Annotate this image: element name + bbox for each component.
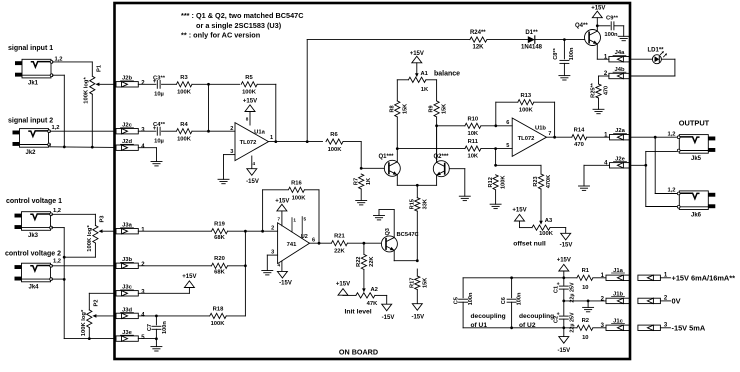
junction Q3 base node bbox=[363, 242, 366, 245]
junction rail2 C6 bbox=[510, 326, 513, 329]
diode D1 1N4148 bbox=[521, 30, 543, 51]
label control voltage 2 bbox=[5, 251, 61, 258]
svg-text:+15V: +15V bbox=[336, 282, 350, 288]
svg-text:10µ: 10µ bbox=[154, 92, 164, 98]
wire rail to R15 bbox=[416, 185, 418, 197]
svg-text:1K: 1K bbox=[366, 178, 372, 185]
svg-text:offset null: offset null bbox=[513, 240, 546, 247]
label decoupling of U1 bbox=[471, 313, 506, 329]
resistor R24 bbox=[470, 30, 487, 51]
wire U1b output bbox=[547, 136, 572, 138]
wire A2 left +15V bbox=[343, 294, 356, 296]
wire R24 to D1 bbox=[487, 39, 528, 41]
resistor R5 feedback bbox=[209, 75, 276, 142]
svg-text:R21: R21 bbox=[334, 234, 345, 240]
power -15V A3 bbox=[560, 233, 573, 248]
junction Q3 emitter node bbox=[416, 259, 419, 262]
connector J2d bbox=[116, 139, 145, 150]
resistor R17 bbox=[409, 269, 428, 304]
connector J3a bbox=[116, 223, 145, 234]
wire Jk2 sleeve rail to J2d bbox=[50, 145, 115, 148]
jack Jk2 bbox=[13, 125, 60, 156]
svg-text:R24**: R24** bbox=[470, 30, 486, 36]
svg-text:R6: R6 bbox=[330, 132, 338, 138]
wire Jk2 tip to J2c bbox=[50, 130, 115, 132]
potentiometer A2 Init level bbox=[345, 287, 379, 316]
resistor R22 bbox=[356, 243, 375, 288]
junction rail C6 bbox=[510, 276, 513, 279]
ground 0V bbox=[583, 301, 594, 312]
svg-text:10µ: 10µ bbox=[154, 138, 164, 144]
wire J2e outside bbox=[630, 164, 645, 166]
svg-text:C4**: C4** bbox=[153, 122, 166, 128]
svg-text:22K: 22K bbox=[369, 257, 375, 267]
power +15V Q4 bbox=[591, 5, 605, 31]
annotation text bbox=[181, 11, 304, 39]
svg-text:100K: 100K bbox=[328, 147, 343, 153]
op-amp U1a bbox=[230, 123, 273, 161]
svg-text:R14: R14 bbox=[574, 127, 585, 133]
junction Q1 base node bbox=[360, 167, 363, 170]
ground R25 bbox=[593, 109, 604, 113]
svg-text:1,2: 1,2 bbox=[667, 131, 675, 137]
label control voltage 1 bbox=[6, 198, 62, 205]
junction R4 node bbox=[207, 130, 210, 133]
wire 0V bbox=[564, 300, 606, 302]
svg-text:1,2: 1,2 bbox=[667, 188, 675, 194]
svg-text:*** : Q1 & Q2, two matched BC5: *** : Q1 & Q2, two matched BC547C bbox=[181, 11, 304, 20]
junction J3e ground bbox=[138, 337, 158, 340]
potentiometer A1 balance bbox=[408, 71, 460, 94]
ground U2 pin3 bbox=[262, 271, 273, 275]
svg-text:R13: R13 bbox=[520, 93, 531, 99]
svg-text:R20: R20 bbox=[214, 256, 225, 262]
power +15V J3c bbox=[182, 274, 196, 288]
junction P2 bottom bbox=[88, 337, 91, 340]
wire R4 to U1a pin2 bbox=[192, 130, 235, 132]
wire Jk4 tip to J3b bbox=[52, 265, 115, 267]
junction rail2 C2 bbox=[562, 326, 565, 329]
wire A3 right -15V bbox=[550, 228, 566, 234]
power +15V balance bbox=[410, 51, 424, 74]
svg-text:Jk3: Jk3 bbox=[28, 233, 39, 239]
resistor R15 bbox=[409, 198, 428, 261]
svg-text:68K: 68K bbox=[214, 235, 225, 241]
wire J2c to C4 bbox=[138, 130, 156, 132]
wire J2d to ground bbox=[138, 148, 156, 162]
resistor R4 bbox=[176, 122, 191, 142]
connector power 0V bbox=[638, 296, 681, 306]
svg-text:R25**: R25** bbox=[591, 82, 597, 97]
ground C8 bbox=[559, 76, 570, 80]
ground C9 bbox=[618, 36, 629, 40]
svg-text:+15V: +15V bbox=[512, 207, 526, 213]
jack Jk4 bbox=[15, 259, 62, 291]
junction P1 bottom rail bbox=[91, 146, 94, 149]
wire Q2 base to ground bbox=[450, 169, 465, 197]
svg-text:15K: 15K bbox=[442, 104, 448, 114]
power -15V U1a bbox=[246, 156, 259, 185]
svg-text:100K: 100K bbox=[211, 321, 226, 327]
svg-text:R7: R7 bbox=[354, 178, 360, 185]
svg-text:100K log*: 100K log* bbox=[81, 309, 87, 336]
svg-text:U1b: U1b bbox=[535, 125, 546, 131]
svg-text:TL072: TL072 bbox=[518, 136, 535, 142]
resistor R3 bbox=[176, 75, 191, 96]
resistor R23 bbox=[533, 174, 552, 221]
jack Jk5 bbox=[667, 131, 715, 162]
wire U1a output bbox=[269, 141, 323, 143]
connector J4b bbox=[604, 67, 631, 79]
svg-text:control voltage 1: control voltage 1 bbox=[6, 198, 62, 205]
capacitor C7 bbox=[147, 316, 168, 347]
junction R19/R20 node bbox=[244, 230, 247, 316]
jack Jk6 bbox=[667, 188, 715, 219]
connector J2a bbox=[604, 128, 630, 140]
svg-text:Jk5: Jk5 bbox=[691, 156, 702, 162]
svg-text:Init level: Init level bbox=[345, 309, 372, 316]
svg-text:C3**: C3** bbox=[153, 75, 166, 81]
wire D1 to Q4 base bbox=[535, 39, 585, 41]
connector J1b bbox=[601, 291, 631, 303]
svg-text:22K: 22K bbox=[334, 249, 345, 255]
svg-text:R12: R12 bbox=[488, 177, 494, 187]
label OUTPUT bbox=[679, 119, 710, 128]
wire Q3 emitter bbox=[394, 250, 417, 260]
wire P2 bottom bbox=[88, 328, 90, 339]
svg-text:C1: C1 bbox=[553, 286, 559, 293]
wire Q1 collector bbox=[396, 149, 398, 162]
junction R24 branch bbox=[306, 140, 309, 143]
svg-text:100n: 100n bbox=[162, 321, 168, 334]
svg-text:100K: 100K bbox=[292, 195, 307, 201]
connector power +15V bbox=[638, 273, 735, 283]
resistor R9 bbox=[429, 101, 448, 161]
svg-text:6: 6 bbox=[506, 120, 509, 126]
potentiometer P1 bbox=[84, 64, 115, 104]
svg-text:Q3: Q3 bbox=[385, 228, 391, 235]
potentiometer P2 bbox=[81, 299, 115, 336]
svg-text:P1: P1 bbox=[96, 64, 102, 72]
ground U1a pin3 bbox=[218, 179, 229, 183]
capacitor C9 bbox=[597, 16, 623, 38]
svg-text:100K: 100K bbox=[501, 176, 507, 189]
svg-text:R5: R5 bbox=[245, 75, 253, 81]
svg-text:33K: 33K bbox=[422, 199, 428, 209]
connector J1c bbox=[601, 318, 631, 330]
wire U1a pin3 to ground bbox=[224, 155, 236, 180]
wire Q2 collector bbox=[436, 126, 438, 163]
resistor R1 bbox=[577, 268, 606, 291]
svg-text:A2: A2 bbox=[371, 287, 378, 293]
label signal input 1 bbox=[8, 45, 53, 52]
svg-text:-15V 5mA: -15V 5mA bbox=[672, 323, 706, 332]
svg-text:3: 3 bbox=[271, 250, 274, 256]
transistor Q1 bbox=[379, 154, 401, 176]
resistor R21 bbox=[331, 234, 381, 255]
svg-text:1: 1 bbox=[293, 218, 296, 223]
capacitor C2 bbox=[553, 301, 575, 333]
power +15V A3 bbox=[512, 207, 526, 221]
power +15V U2 bbox=[275, 198, 289, 226]
svg-text:15K: 15K bbox=[402, 104, 408, 114]
ground R12 bbox=[490, 204, 501, 208]
svg-text:+15V: +15V bbox=[591, 5, 605, 11]
svg-text:control voltage 2: control voltage 2 bbox=[5, 251, 61, 258]
svg-text:1,2: 1,2 bbox=[51, 125, 59, 131]
svg-text:A3: A3 bbox=[545, 218, 553, 224]
capacitor C8 bbox=[553, 40, 575, 76]
svg-text:100K: 100K bbox=[242, 90, 257, 96]
capacitor C1 bbox=[553, 278, 575, 303]
wire Jk3 sleeve bbox=[52, 228, 64, 258]
svg-text:2: 2 bbox=[271, 226, 274, 232]
op-amp U2 741 bbox=[271, 223, 315, 264]
power -15V R17 bbox=[411, 304, 424, 321]
junction C7 tap bbox=[155, 315, 158, 318]
svg-text:100n: 100n bbox=[569, 47, 575, 60]
svg-text:1,2: 1,2 bbox=[53, 259, 61, 265]
connector J3d bbox=[116, 307, 145, 318]
junction R20 node bbox=[244, 264, 247, 267]
wire cross-coupling R11 bbox=[397, 148, 465, 150]
svg-text:10: 10 bbox=[582, 285, 588, 291]
wire P3 bottom bbox=[64, 243, 95, 257]
wire J3d to R18 bbox=[138, 315, 209, 317]
svg-text:P2: P2 bbox=[93, 299, 99, 306]
svg-text:R8: R8 bbox=[389, 105, 395, 112]
junction U2 output bbox=[318, 242, 321, 245]
power +15V A2 bbox=[336, 282, 350, 296]
wire +15V rail bbox=[463, 277, 577, 279]
svg-text:R19: R19 bbox=[214, 222, 225, 228]
wire J2a to Jk5 bbox=[630, 136, 676, 138]
svg-text:1N4148: 1N4148 bbox=[521, 44, 543, 50]
svg-text:100n: 100n bbox=[468, 292, 474, 305]
capacitor C6 bbox=[501, 278, 522, 328]
svg-text:6: 6 bbox=[312, 238, 315, 244]
svg-text:R16: R16 bbox=[291, 180, 302, 186]
svg-text:C7: C7 bbox=[147, 324, 153, 331]
connector J2e bbox=[604, 156, 630, 168]
svg-text:C8**: C8** bbox=[553, 47, 559, 59]
svg-text:A1: A1 bbox=[421, 71, 429, 77]
wire summing vertical bbox=[208, 84, 210, 131]
svg-text:C5: C5 bbox=[453, 297, 459, 304]
svg-text:+15V: +15V bbox=[275, 198, 289, 204]
svg-text:47K: 47K bbox=[367, 301, 378, 307]
svg-text:Q1***: Q1*** bbox=[379, 154, 395, 160]
junction R3/R5 node bbox=[207, 83, 210, 86]
svg-text:+15V: +15V bbox=[557, 257, 571, 263]
svg-text:0V: 0V bbox=[672, 297, 681, 306]
junction P3 bottom bbox=[63, 256, 66, 259]
svg-text:-15V: -15V bbox=[382, 315, 395, 321]
junction feedback tap bbox=[274, 140, 277, 143]
svg-text:C2: C2 bbox=[553, 316, 559, 323]
junction emitter rail bbox=[416, 184, 419, 187]
svg-text:1K: 1K bbox=[421, 87, 429, 93]
wire J3c +15V bbox=[138, 288, 189, 294]
svg-text:15K: 15K bbox=[422, 278, 428, 288]
wire output to R24 row bbox=[307, 40, 470, 142]
wire Jk3 sleeve bus down bbox=[64, 257, 89, 338]
svg-text:22µ 25V: 22µ 25V bbox=[570, 312, 576, 333]
svg-text:signal input 2: signal input 2 bbox=[8, 118, 53, 125]
power -15V U2 bbox=[277, 261, 291, 287]
svg-text:signal input 1: signal input 1 bbox=[8, 45, 53, 52]
wire Q3 collector to ground bbox=[379, 210, 394, 238]
svg-text:100n: 100n bbox=[604, 32, 618, 38]
wire U2 pin3 ground bbox=[267, 255, 277, 270]
junction output node bbox=[654, 136, 657, 139]
ground J2e bbox=[579, 186, 590, 190]
svg-text:100K: 100K bbox=[177, 136, 192, 142]
svg-text:7: 7 bbox=[548, 131, 551, 137]
resistor R8 bbox=[389, 101, 408, 149]
wire emitter rail bbox=[397, 175, 436, 186]
wire Q4 emitter to J4a bbox=[597, 44, 609, 59]
transistor Q3 bbox=[381, 228, 419, 252]
wire J4b to R25 bbox=[599, 76, 609, 84]
resistor R25 bbox=[591, 82, 610, 109]
resistor R12 bbox=[488, 175, 507, 204]
op-amp U1b bbox=[506, 118, 551, 156]
svg-text:2: 2 bbox=[230, 126, 233, 132]
junction Jk4 sleeve bbox=[63, 278, 66, 281]
svg-text:470: 470 bbox=[603, 86, 609, 95]
potentiometer A3 offset null bbox=[513, 218, 553, 247]
svg-text:+15V 6mA/16mA**: +15V 6mA/16mA** bbox=[672, 273, 736, 282]
label decoupling of U2 bbox=[519, 313, 554, 329]
svg-text:OUTPUT: OUTPUT bbox=[679, 119, 710, 128]
label signal input 2 bbox=[8, 118, 53, 125]
svg-text:-15V: -15V bbox=[411, 315, 424, 321]
svg-text:68K: 68K bbox=[214, 270, 225, 276]
svg-text:100K log*: 100K log* bbox=[87, 225, 93, 252]
LED LD1 bbox=[630, 48, 675, 64]
ground Q3 collector bbox=[374, 216, 385, 220]
svg-text:Jk1: Jk1 bbox=[28, 81, 39, 87]
junction U1b output bbox=[553, 136, 556, 139]
junction R13 tap bbox=[494, 124, 497, 127]
wire C3 to R3 bbox=[162, 83, 177, 85]
connector J2b bbox=[116, 76, 145, 87]
connector J3b bbox=[116, 257, 145, 268]
ground C7/J3e bbox=[151, 347, 162, 351]
junction Q4 collector / C9 bbox=[596, 24, 599, 27]
transistor Q2 bbox=[433, 154, 449, 177]
wire A1 right to R9 bbox=[426, 80, 437, 101]
junction offset tap bbox=[494, 147, 497, 150]
svg-text:8: 8 bbox=[246, 117, 249, 122]
wire output to Jk6 tip bbox=[655, 137, 676, 193]
wire LED return to J4b bbox=[630, 59, 675, 76]
svg-text:D1**: D1** bbox=[525, 30, 538, 36]
svg-text:741: 741 bbox=[287, 242, 297, 248]
svg-text:470: 470 bbox=[574, 142, 584, 148]
wire J2b to C3 bbox=[138, 83, 156, 85]
svg-text:+15V: +15V bbox=[243, 99, 257, 105]
svg-text:R4: R4 bbox=[180, 122, 188, 128]
svg-text:** : only for AC version: ** : only for AC version bbox=[181, 30, 260, 39]
svg-text:10K: 10K bbox=[467, 154, 478, 160]
jack Jk1 bbox=[15, 57, 63, 87]
svg-text:Q4**: Q4** bbox=[575, 23, 588, 29]
connector J4a bbox=[604, 50, 631, 62]
svg-text:R17: R17 bbox=[409, 278, 415, 288]
capacitor C5 bbox=[453, 278, 473, 328]
jack Jk3 bbox=[15, 208, 62, 239]
svg-text:R2: R2 bbox=[582, 318, 589, 324]
resistor R10 bbox=[437, 116, 513, 137]
svg-text:5: 5 bbox=[506, 143, 509, 149]
junction C8 tap bbox=[563, 38, 566, 41]
wire R3 to node bbox=[192, 83, 209, 85]
wire Jk1 tip to P1 bbox=[52, 62, 92, 76]
svg-text:+15V: +15V bbox=[182, 274, 196, 280]
wire -15V rail bbox=[463, 327, 577, 329]
svg-text:or a single 2SC1583 (U3): or a single 2SC1583 (U3) bbox=[196, 21, 282, 30]
svg-text:-15V: -15V bbox=[557, 348, 570, 354]
power -15V A2 bbox=[382, 304, 395, 321]
connector power -15V bbox=[638, 323, 706, 333]
connector J1a bbox=[601, 268, 631, 281]
svg-text:4: 4 bbox=[278, 263, 281, 268]
svg-text:R15: R15 bbox=[409, 199, 415, 209]
connector J3c bbox=[116, 285, 145, 296]
connector J2c bbox=[116, 123, 145, 134]
svg-text:C9**: C9** bbox=[606, 16, 619, 22]
svg-text:TL072: TL072 bbox=[240, 140, 257, 146]
wire R6 to Q1 base bbox=[343, 142, 384, 169]
svg-text:Jk6: Jk6 bbox=[691, 213, 702, 219]
junction U2 inv node bbox=[261, 230, 264, 233]
offset null branch bbox=[494, 149, 541, 174]
junction Q1 collector node bbox=[396, 147, 399, 150]
wire A1 left to R8 bbox=[397, 80, 408, 101]
svg-text:Q2***: Q2*** bbox=[434, 154, 450, 160]
resistor R20 bbox=[138, 256, 245, 275]
resistor R2 bbox=[577, 318, 606, 341]
svg-text:C6: C6 bbox=[501, 297, 507, 304]
svg-text:R10: R10 bbox=[467, 116, 478, 122]
svg-text:R1: R1 bbox=[582, 268, 590, 274]
svg-text:10: 10 bbox=[582, 335, 588, 341]
svg-text:-15V: -15V bbox=[246, 179, 259, 185]
wire A3 left +15V bbox=[520, 221, 533, 228]
resistor R14 bbox=[572, 127, 610, 148]
svg-text:decoupling: decoupling bbox=[471, 313, 506, 320]
svg-text:1,2: 1,2 bbox=[53, 208, 61, 214]
U2 offset pins 1/5 bbox=[292, 217, 307, 239]
wire ground bus to J3e bbox=[89, 338, 114, 340]
power +15V U1a bbox=[243, 99, 257, 126]
svg-text:100K: 100K bbox=[539, 231, 554, 237]
wire Jk1 sleeve bbox=[52, 75, 64, 147]
resistor R11 bbox=[465, 139, 512, 160]
junction 0V ground bbox=[587, 300, 590, 303]
power -15V rail bbox=[557, 328, 570, 354]
svg-text:R23: R23 bbox=[533, 176, 539, 186]
ground R7 bbox=[356, 201, 367, 205]
wire U2 output bbox=[310, 242, 332, 244]
junction rail C1 bbox=[562, 276, 565, 279]
connector J3e bbox=[116, 330, 145, 341]
junction 0V node bbox=[562, 300, 565, 303]
wire sleeve bus bbox=[646, 151, 677, 206]
svg-text:P3: P3 bbox=[99, 215, 105, 223]
